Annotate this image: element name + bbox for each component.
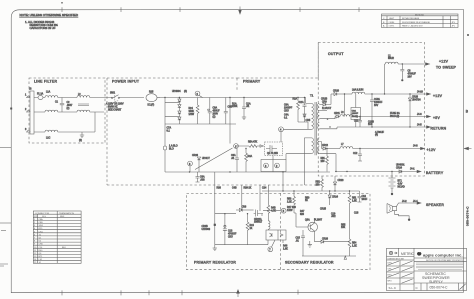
capacitor C13 [224, 214, 226, 245]
right border arrow y148.5 [464, 147, 471, 150]
svg-text:R54: R54 [352, 243, 357, 245]
svg-text:1.2K: 1.2K [352, 246, 357, 248]
transistor Q6 [308, 222, 318, 232]
svg-text:SECONDARY REGULATOR: SECONDARY REGULATOR [285, 261, 334, 265]
node 4 [279, 127, 284, 132]
snubber resistor R2A [297, 98, 299, 102]
capacitor C12 [358, 149, 362, 162]
snubber capacitor C2A [304, 98, 306, 123]
svg-text:L2: L2 [388, 56, 391, 58]
wire L top [34, 97, 110, 99]
+12V arrow low [421, 147, 425, 150]
switch SW1 [110, 95, 144, 98]
svg-text:apple computer inc.: apple computer inc. [423, 253, 463, 258]
choke core [78, 104, 89, 106]
feedback winding T1B [268, 221, 270, 230]
primary winding lower [312, 138, 314, 154]
svg-text:4700UF: 4700UF [408, 74, 417, 76]
proprietary fine print [416, 263, 464, 269]
svg-text:1K: 1K [250, 228, 253, 230]
revision table [382, 14, 459, 28]
bottom border tick x=62 [61, 290, 63, 295]
capacitor C8A [209, 98, 211, 125]
+5V arrow [427, 115, 431, 118]
+12V low wire [353, 148, 421, 150]
svg-text:4: 4 [280, 130, 282, 132]
connector pin table [33, 211, 81, 264]
svg-text:1200UF: 1200UF [374, 102, 383, 104]
svg-text:68UH: 68UH [388, 58, 394, 60]
svg-text:CR14: CR14 [332, 197, 339, 199]
svg-text:.01: .01 [231, 158, 235, 160]
svg-text:.01: .01 [296, 241, 300, 243]
choke L2 bottom winding [77, 110, 90, 112]
svg-text:CR11: CR11 [334, 113, 340, 115]
svg-text:J4-5: J4-5 [417, 125, 422, 127]
svg-text:C3A: C3A [231, 154, 236, 157]
secondary tap CR9 [319, 103, 323, 105]
svg-text:RETURN: RETURN [431, 126, 447, 130]
line filter section box [29, 78, 105, 143]
capacitor C15 [302, 230, 304, 243]
fuse F1 [38, 96, 43, 100]
resistor R45 [267, 204, 269, 206]
svg-text:CR12: CR12 [322, 145, 329, 147]
resistor R54 [348, 239, 351, 247]
+12V wire [365, 93, 427, 95]
title block [387, 248, 467, 290]
left panel rows [387, 257, 415, 285]
speaker return path [395, 211, 410, 219]
inductor L2 [385, 62, 398, 64]
svg-text:BATTERY: BATTERY [426, 171, 444, 175]
regulator transistor Q3 [254, 210, 263, 217]
svg-text:REVISIONS: REVISIONS [415, 15, 424, 17]
node 5 [281, 208, 286, 213]
+5V rectifier CR11 [335, 116, 336, 118]
svg-text:R46: R46 [283, 246, 288, 248]
svg-text:12.6VCT: 12.6VCT [322, 108, 332, 110]
svg-text:J4-4: J4-4 [413, 201, 418, 203]
svg-text:CR1B: CR1B [321, 99, 328, 101]
svg-text:050-0074-C: 050-0074-C [430, 286, 448, 290]
inductor L1B [45, 110, 58, 112]
top border center arrow [239, 7, 242, 15]
svg-text:CKV: CKV [284, 111, 289, 113]
bridge diode CR1A [178, 98, 180, 100]
capacitor C1 [61, 98, 63, 113]
inductor L1C [45, 130, 58, 132]
wire L mid [34, 111, 104, 113]
svg-text:1UF: 1UF [368, 124, 373, 126]
Q1 package box [261, 160, 286, 172]
top border tick x=359 [358, 7, 360, 12]
capacitor C16 [358, 191, 362, 202]
node 2 [275, 163, 280, 168]
svg-text:CR24: CR24 [396, 168, 403, 170]
svg-text:450UF: 450UF [213, 111, 221, 113]
resistor R51A [349, 191, 351, 195]
battery ground [391, 193, 393, 195]
svg-text:PAGE 2 - ADDED 45V: PAGE 2 - ADDED 45V [402, 25, 423, 28]
+12V low rectifier CR12 [322, 148, 324, 150]
signature slashes [388, 261, 413, 283]
svg-text:L6A 3.3UH: L6A 3.3UH [352, 89, 364, 92]
svg-text:100UF: 100UF [352, 113, 359, 115]
secondary winding 2 [317, 112, 319, 119]
svg-text:MFG: MFG [388, 280, 393, 282]
capacitor C10A [371, 94, 373, 127]
svg-text:ICL(F): ICL(F) [148, 105, 155, 107]
bridge diode CR4A [178, 114, 180, 117]
svg-text:3: 3 [197, 94, 199, 96]
battery wire [335, 171, 418, 173]
svg-text:3: 3 [25, 129, 27, 131]
regulator bottom rail [215, 244, 268, 246]
svg-text:R4B: R4B [271, 208, 276, 210]
svg-text:5: 5 [283, 211, 285, 213]
svg-text:CR23: CR23 [338, 180, 345, 182]
secondary tap to return [319, 127, 337, 129]
svg-text:F1 2A: F1 2A [37, 93, 44, 96]
svg-text:S.L.C: S.L.C [389, 286, 397, 290]
svg-text:R51: R51 [352, 198, 357, 200]
svg-text:C15: C15 [296, 238, 301, 240]
snubber diode CR5 [298, 122, 308, 129]
svg-text:.033: .033 [200, 180, 205, 182]
secondary winding 4 [317, 138, 319, 145]
svg-text:C24: C24 [262, 188, 267, 190]
svg-text:SEE CHART: SEE CHART [108, 109, 122, 112]
secondary tap 12.6VCT [319, 110, 327, 112]
resistor R24 [197, 98, 199, 106]
svg-text:C13: C13 [228, 231, 233, 233]
svg-text:L3: L3 [341, 112, 344, 114]
svg-text:C12: C12 [353, 153, 358, 155]
svg-text:R52: R52 [316, 182, 321, 184]
Q1 drain wire [273, 132, 281, 172]
svg-text:R2A: R2A [293, 98, 298, 101]
secondary top rail [262, 190, 360, 192]
svg-text:C1: C1 [55, 102, 59, 104]
svg-text:J4-1: J4-1 [410, 169, 415, 171]
svg-text:16V: 16V [408, 77, 413, 79]
svg-text:R39 1K: R39 1K [244, 188, 252, 190]
svg-text:C9A: C9A [284, 104, 289, 107]
primary section box [237, 43, 318, 91]
company logo row [414, 258, 467, 283]
svg-text:2: 2 [276, 166, 278, 168]
primary reg rail [215, 213, 236, 215]
inductor L3 [340, 115, 353, 117]
capacitor C1A drop [243, 98, 245, 118]
thermistor R25 [146, 94, 157, 102]
output section box [318, 43, 424, 177]
top border tick x=300 [299, 7, 301, 12]
optocoupler U2 [266, 230, 286, 240]
svg-text:(4): (4) [375, 135, 378, 137]
svg-text:R27 620: R27 620 [287, 207, 297, 209]
svg-text:CONNECTOR: CONNECTOR [35, 213, 49, 215]
left border small mark [1, 230, 6, 232]
charge resistor R52 [321, 176, 323, 179]
svg-text:OUTPUT: OUTPUT [328, 52, 344, 56]
+12V rectifier CR10 [331, 93, 334, 95]
left border center tick [0, 147, 11, 149]
+12V arrow [427, 93, 431, 96]
svg-text:CR6: CR6 [242, 207, 247, 209]
svg-text:C16: C16 [362, 196, 367, 198]
svg-text:POWER INPUT: POWER INPUT [112, 80, 139, 84]
svg-text:CAPACITORS IN UF: CAPACITORS IN UF [30, 26, 56, 30]
secondary winding 5 [317, 147, 319, 154]
bottom border tick x=182 [181, 290, 183, 295]
regulator vertical feeds [215, 172, 283, 245]
svg-text:1.5K: 1.5K [352, 201, 357, 203]
inductor L6A [352, 92, 365, 94]
Q6 emitter ground [309, 241, 311, 245]
capacitor C3A [236, 149, 238, 173]
svg-text:BLO: BLO [169, 149, 174, 151]
svg-text:TERMINATION: TERMINATION [59, 212, 74, 215]
svg-text:SUPPLY: SUPPLY [429, 280, 444, 284]
svg-text:C19: C19 [331, 214, 336, 216]
svg-text:ENG: ENG [388, 274, 392, 276]
svg-text:R47: R47 [300, 211, 305, 213]
bridge diode CR3A [178, 107, 180, 111]
svg-text:1/2W: 1/2W [189, 114, 195, 116]
top border tick x=180 [179, 7, 181, 12]
svg-text:C2A: C2A [299, 101, 304, 104]
primary winding upper [312, 104, 314, 130]
svg-text:C10A: C10A [374, 98, 380, 101]
Q1 mosfet glyph [266, 145, 277, 152]
core [315, 102, 317, 155]
svg-text:15: 15 [34, 262, 37, 264]
svg-text:BLK: BLK [62, 247, 67, 249]
svg-text:UH4001: UH4001 [396, 165, 405, 167]
ground line filter [81, 132, 83, 135]
svg-text:BT1: BT1 [398, 181, 403, 183]
svg-text:620: 620 [300, 214, 305, 216]
T1 aux winding wire [304, 138, 311, 185]
transistor Q1 dashed outline [265, 142, 283, 156]
svg-text:.01: .01 [246, 106, 250, 108]
speaker LS1 [387, 204, 397, 214]
svg-text:(2): (2) [79, 140, 82, 142]
zener CR18 [409, 94, 411, 98]
top border dot [61, 2, 63, 4]
svg-text:220K: 220K [232, 106, 238, 108]
svg-text:T1: T1 [310, 94, 314, 98]
svg-text:16V: 16V [374, 105, 379, 107]
svg-text:P/N: P/N [34, 216, 38, 218]
svg-text:.0047: .0047 [67, 105, 74, 107]
svg-text:R51: R51 [321, 158, 326, 160]
node 3 [264, 163, 269, 168]
svg-text:050-0074-C: 050-0074-C [466, 206, 470, 226]
svg-text:CR9: CR9 [322, 102, 327, 104]
svg-text:1.8K: 1.8K [283, 249, 288, 251]
node 7 diagonal [272, 240, 276, 247]
RETURN label [427, 126, 431, 129]
svg-text:J4: J4 [39, 262, 42, 264]
svg-text:.022: .022 [331, 216, 336, 218]
svg-text:TO SWEEP: TO SWEEP [436, 65, 457, 69]
charge diode CR23 [334, 176, 336, 182]
svg-text:+5V: +5V [433, 116, 440, 120]
svg-text:SPEAKER: SPEAKER [426, 203, 444, 207]
svg-text:CR15: CR15 [320, 209, 327, 211]
node 3 [195, 91, 200, 96]
svg-text:4700UF: 4700UF [228, 234, 237, 236]
svg-text:16V(2): 16V(2) [352, 116, 359, 118]
svg-text:(2): (2) [67, 108, 70, 110]
J3 input stubs [26, 98, 30, 133]
svg-text:C10B: C10B [368, 122, 374, 124]
choke L2 top winding [77, 96, 90, 98]
svg-text:R44: R44 [250, 225, 255, 227]
secondary bottom rail [302, 243, 356, 259]
bridge jogs [165, 102, 179, 116]
svg-text:PL2907: PL2907 [314, 220, 323, 222]
svg-text:CR5: CR5 [306, 120, 311, 122]
svg-text:50/60 HZ: 50/60 HZ [108, 107, 118, 109]
svg-text:R4A: R4A [248, 155, 253, 158]
svg-text:1K: 1K [305, 200, 308, 202]
svg-text:R55: R55 [341, 225, 346, 227]
svg-text:1000PF: 1000PF [284, 108, 293, 110]
pin table entries [34, 218, 67, 264]
svg-text:C8A: C8A [213, 107, 218, 110]
wire L bottom [34, 131, 95, 133]
svg-text:R5A 47K: R5A 47K [248, 141, 258, 144]
svg-text:FUSE 3A: FUSE 3A [390, 112, 400, 115]
battery BT1 [389, 172, 396, 193]
svg-text:C4B: C4B [232, 188, 237, 190]
pin table rows [33, 220, 81, 260]
svg-text:2.2K: 2.2K [287, 202, 292, 204]
+5V wire [353, 116, 427, 118]
svg-text:1N5817: 1N5817 [254, 222, 263, 224]
svg-text:J4-10: J4-10 [417, 92, 424, 94]
svg-text:(4): (4) [184, 91, 187, 93]
svg-text:1: 1 [25, 95, 27, 97]
svg-text:CKV: CKV [228, 237, 233, 239]
left border zone tick [0, 222, 11, 224]
bridge bottom rail [165, 123, 236, 125]
svg-text:CR18: CR18 [412, 97, 419, 99]
connector J3 [30, 91, 34, 134]
svg-text:6: 6 [189, 164, 191, 166]
svg-text:C: C [416, 286, 419, 290]
resistor R5A [249, 145, 257, 148]
svg-text:LAST: LAST [389, 17, 395, 20]
svg-text:SIG: SIG [42, 216, 46, 218]
diode CR24 [399, 170, 402, 173]
gate wire [239, 145, 264, 147]
svg-text:4,700UF: 4,700UF [375, 132, 385, 134]
base wire to Q6 [294, 213, 308, 227]
svg-text:#1971: #1971 [389, 26, 396, 28]
svg-text:DRN: DRN [388, 262, 393, 264]
svg-text:C9A: C9A [352, 110, 357, 113]
svg-text:Q6A: Q6A [305, 219, 310, 222]
svg-text:10K: 10K [341, 227, 346, 229]
svg-text:REF: REF [60, 216, 65, 218]
transformer T1 [310, 94, 319, 156]
svg-text:INITIAL RELEASE: INITIAL RELEASE [402, 17, 420, 20]
bridge left drop [164, 98, 166, 147]
svg-text:C11: C11 [354, 121, 359, 123]
svg-text:C4A: C4A [284, 114, 289, 117]
svg-text:CR16: CR16 [322, 239, 329, 241]
svg-text:PRIMARY REGULATOR: PRIMARY REGULATOR [194, 261, 236, 265]
svg-text:C7A: C7A [167, 127, 172, 130]
svg-text:R38: R38 [217, 188, 222, 190]
svg-text:R24: R24 [189, 108, 194, 110]
speaker wire arrow [397, 203, 418, 206]
bottom border center arrow [237, 290, 240, 297]
fuse F2 [164, 150, 166, 172]
secondary winding 1 [317, 104, 319, 111]
svg-text:A 115V OR 230V: A 115V OR 230V [106, 103, 124, 106]
svg-text:C6A: C6A [200, 176, 205, 179]
svg-text:R1A: R1A [232, 103, 237, 106]
regulator section box [187, 193, 371, 269]
wire input top rail [157, 97, 305, 99]
svg-text:2: 2 [25, 109, 27, 111]
secondary tap bottom [319, 154, 336, 172]
general note text [20, 13, 79, 30]
svg-text:CHK: CHK [388, 268, 393, 270]
top rail jog into T1 primary [305, 98, 312, 104]
svg-text:L1C: L1C [46, 138, 51, 140]
inductor L1A [45, 96, 58, 98]
T1 primary bottom wire to node 4 [284, 128, 312, 130]
svg-text:METRIC: METRIC [401, 252, 415, 256]
left frame zone mark [10, 108, 12, 110]
svg-text:+12V: +12V [439, 60, 449, 64]
svg-text:CR22A: CR22A [254, 218, 262, 221]
capacitor C6A below rail [196, 172, 200, 182]
svg-text:+12V: +12V [433, 94, 443, 98]
bottom border tick x=149 [148, 290, 150, 295]
secondary winding 3 [318, 122, 320, 129]
diode CR6 [236, 209, 239, 211]
svg-text:UH4CT: UH4CT [202, 158, 210, 160]
svg-text:Q1 PL23B: Q1 PL23B [267, 153, 278, 155]
svg-text:3: 3 [265, 166, 267, 168]
wire mid drop [94, 112, 96, 132]
resistor R44 [247, 214, 249, 222]
svg-text:LINE FILTER: LINE FILTER [34, 80, 57, 84]
svg-text:UH4004: UH4004 [172, 91, 181, 93]
node 1 with diagonal [195, 148, 233, 170]
svg-text:#1084: #1084 [389, 22, 396, 24]
svg-text:C8A: C8A [39, 218, 44, 221]
left border mark y264 [0, 264, 8, 266]
svg-text:SW1: SW1 [110, 93, 116, 95]
svg-text:7: 7 [269, 250, 271, 252]
capacitor C8B [225, 98, 227, 125]
svg-text:L1A: L1A [46, 91, 51, 94]
sweep output wire [398, 63, 427, 65]
bottom border tick x=298 [297, 290, 299, 295]
svg-text:150: 150 [321, 161, 326, 163]
svg-text:(2): (2) [213, 117, 216, 119]
svg-text:J4-6: J4-6 [417, 114, 422, 116]
